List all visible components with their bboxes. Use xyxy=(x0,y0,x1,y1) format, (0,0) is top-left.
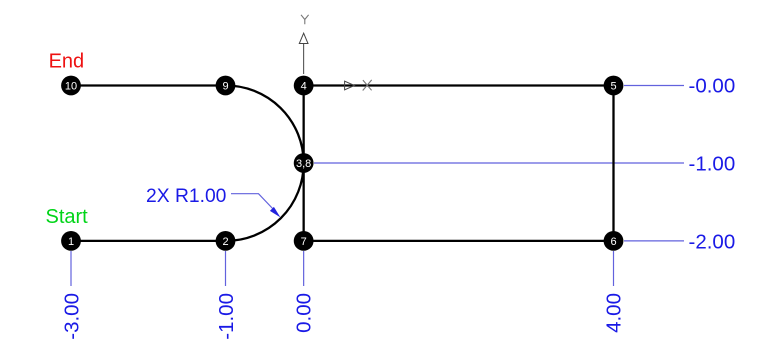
svg-text:-1.00: -1.00 xyxy=(215,293,238,340)
svg-text:3,8: 3,8 xyxy=(296,158,311,170)
leader from node 6 to label -2.00 xyxy=(624,240,684,242)
node 2 xyxy=(216,231,236,251)
svg-text:7: 7 xyxy=(301,236,307,248)
svg-text:1: 1 xyxy=(68,236,74,248)
node 10 xyxy=(61,76,81,96)
wire segment 6-7 (bottom line) xyxy=(304,240,614,242)
wire segment 9-10 (top left line) xyxy=(71,84,226,86)
leader from node 5 to label -0.00 xyxy=(624,85,684,87)
node 9 xyxy=(216,76,236,96)
svg-text:4: 4 xyxy=(301,80,307,92)
node 5 xyxy=(604,76,624,96)
node 6 xyxy=(604,231,624,251)
svg-text:-1.00: -1.00 xyxy=(689,152,736,175)
svg-text:0.00: 0.00 xyxy=(293,293,316,333)
svg-text:10: 10 xyxy=(65,80,77,92)
Y axis label xyxy=(301,15,309,24)
svg-text:-0.00: -0.00 xyxy=(689,75,736,98)
leader below node 2 xyxy=(225,251,227,286)
wire segment 7-3-4 (vertical line x=0) xyxy=(302,86,304,241)
node 1 xyxy=(61,231,81,251)
node 3,8 xyxy=(294,153,314,173)
wire segment 4-5 (top line) xyxy=(304,84,614,86)
leader below node 1 xyxy=(70,251,72,286)
svg-text:-2.00: -2.00 xyxy=(689,230,736,253)
Y axis arrowhead xyxy=(299,33,308,43)
svg-text:5: 5 xyxy=(610,80,616,92)
radius annotation leader with arrow xyxy=(231,194,275,211)
leader below node 7 xyxy=(303,251,305,286)
svg-text:2: 2 xyxy=(222,236,228,248)
node 7 xyxy=(294,231,314,251)
arc 2-3 and arc 8-9 (semicircle R1.00) xyxy=(226,85,304,240)
wire segment 1-2 (bottom left line) xyxy=(71,240,226,242)
Y axis line xyxy=(303,44,305,75)
X axis arrowhead xyxy=(345,81,355,90)
svg-text:9: 9 xyxy=(222,80,228,92)
svg-text:-3.00: -3.00 xyxy=(60,293,83,340)
leader from node 3,8 to label -1.00 xyxy=(314,162,684,164)
svg-text:End: End xyxy=(49,51,85,73)
svg-text:6: 6 xyxy=(610,236,616,248)
X axis label xyxy=(363,80,372,91)
svg-text:4.00: 4.00 xyxy=(602,293,625,333)
svg-text:Start: Start xyxy=(46,206,89,228)
node 4 xyxy=(294,76,314,96)
wire segment 5-6 (right vertical line) xyxy=(612,86,614,241)
leader below node 6 xyxy=(613,251,615,286)
svg-text:2X R1.00: 2X R1.00 xyxy=(146,186,226,207)
